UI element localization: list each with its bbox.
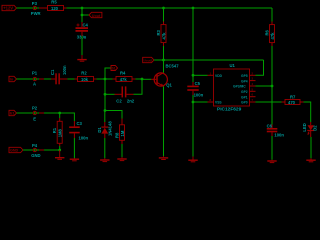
svg-text:10k: 10k	[81, 77, 89, 82]
capacitor C1 100n	[50, 65, 67, 84]
capacitor C3 100n	[69, 121, 88, 141]
svg-text:Uout: Uout	[92, 14, 101, 18]
wire D1 to ground	[104, 138, 106, 158]
svg-text:1N4148: 1N4148	[107, 121, 112, 136]
wire LED to ground	[310, 137, 312, 158]
wire riser down to GP5 pin	[256, 60, 264, 75]
wire label to P4	[23, 149, 33, 151]
capacitor C6 100n	[267, 124, 285, 138]
resistor R1 1M (vertical, P2 row to P4 row)	[52, 113, 63, 150]
svg-text:47k: 47k	[120, 77, 128, 82]
svg-text:C3: C3	[77, 121, 83, 126]
wire down to node Vpp	[81, 8, 83, 15]
connector pin P2	[32, 105, 38, 121]
resistor R4 47k	[113, 71, 136, 82]
wire R7 to LED	[304, 102, 311, 122]
svg-text:R2: R2	[81, 71, 87, 76]
global label S1	[111, 66, 118, 71]
wire C5 to VSS row	[192, 95, 194, 102]
capacitor C2 2n2 (parallel with R4)	[115, 86, 135, 103]
ground under LED	[306, 158, 315, 162]
svg-text:PWR: PWR	[31, 11, 41, 16]
capacitor C4 330u (polarized)	[76, 22, 89, 39]
wire collector of Q1	[163, 60, 165, 73]
junction at 193,75.3	[192, 74, 195, 77]
svg-text:Q1: Q1	[166, 83, 172, 88]
svg-text:Uout2: Uout2	[144, 59, 153, 63]
connector pin P1	[32, 70, 38, 86]
wire label to junction	[154, 59, 164, 61]
wire stub to label	[82, 14, 89, 16]
wire base node to Q1 base	[142, 78, 151, 80]
global label Ukol	[143, 57, 154, 62]
svg-text:D2: D2	[313, 125, 318, 131]
transistor Q1 BC547	[151, 63, 179, 87]
wire P4 to junction	[37, 149, 39, 151]
svg-text:100n: 100n	[79, 135, 89, 140]
svg-text:R5: R5	[51, 0, 57, 5]
junction at 59.7,113	[58, 112, 61, 115]
svg-text:S1: S1	[112, 67, 116, 71]
svg-text:A: A	[33, 81, 36, 86]
svg-text:VDD: VDD	[215, 74, 223, 78]
wire P1 to C1	[37, 78, 39, 80]
global label +12V	[2, 5, 17, 10]
global label Uout	[89, 12, 102, 17]
pin 2 GP5	[241, 71, 256, 78]
svg-text:1M8: 1M8	[58, 128, 63, 137]
wire corner 272,8 down to R6	[271, 8, 273, 22]
svg-text:C1: C1	[50, 69, 55, 75]
pin 7 GP0	[241, 98, 256, 105]
wire to C2	[105, 93, 115, 95]
wire top rail 163.5 to 193	[164, 7, 194, 9]
svg-text:100n: 100n	[194, 93, 204, 98]
wire C3 to ground	[73, 138, 75, 158]
wire to VSS pin	[193, 101, 208, 103]
wire R8 to ground	[121, 144, 123, 157]
wire node A up to label	[105, 68, 111, 79]
svg-text:E: E	[33, 116, 36, 121]
wire emitter of Q1 to ground	[163, 86, 165, 156]
svg-text:47k: 47k	[161, 32, 166, 40]
svg-text:R3: R3	[156, 29, 161, 35]
wire node A down to D1 node	[104, 94, 106, 110]
junction at 163.5,8	[162, 7, 165, 10]
pin 1 VDD	[208, 71, 223, 78]
ground under Q1 emitter	[159, 156, 168, 160]
wire C1 to R2	[67, 78, 74, 80]
svg-text:R6: R6	[264, 29, 269, 35]
svg-text:GP1: GP1	[241, 95, 248, 99]
junction at 59.7,150	[58, 149, 61, 152]
wire GP0 to R7	[256, 101, 282, 103]
svg-text:C4: C4	[83, 22, 89, 27]
junction at 82,15	[81, 14, 84, 17]
svg-text:100n: 100n	[274, 132, 284, 137]
ground under P4 junction	[55, 150, 64, 159]
connector pin P3 (PWR)	[31, 1, 41, 16]
svg-text:BC547: BC547	[166, 63, 180, 68]
junction at 105,94.3	[104, 93, 107, 96]
connector pin P4 (GND)	[31, 143, 40, 158]
diode D1 1N4148	[97, 111, 112, 139]
resistor R8 1M (vertical)	[115, 119, 125, 145]
svg-text:470: 470	[288, 100, 296, 105]
svg-text:+12V: +12V	[3, 6, 13, 11]
wire GP3 to MCLR rail	[256, 85, 273, 87]
wire junction to R3	[163, 8, 165, 22]
pin 5 GP2	[241, 87, 256, 94]
svg-text:GP5: GP5	[241, 74, 248, 78]
junction at 142,79	[141, 78, 144, 81]
pin 6 GP1	[241, 93, 256, 100]
svg-text:LED: LED	[302, 123, 307, 131]
wire P3 to R5	[37, 7, 39, 9]
svg-text:D1: D1	[97, 127, 102, 133]
svg-text:U1: U1	[230, 63, 236, 68]
wire node A to R4	[105, 78, 113, 80]
ground under VSS rail	[188, 157, 197, 162]
svg-text:47k: 47k	[270, 32, 275, 40]
wire junction to C4	[81, 15, 83, 22]
junction at 82,8	[81, 7, 84, 10]
wire VDD rail down	[192, 8, 194, 75]
pin 3 GP4	[241, 77, 256, 84]
svg-text:E1: E1	[10, 112, 15, 116]
svg-text:GP3/MC: GP3/MC	[233, 85, 246, 89]
ground under R8	[117, 157, 126, 161]
junction at 163.5,60	[162, 59, 165, 62]
svg-text:PIC12F629: PIC12F629	[217, 107, 242, 113]
wire P2 to junction	[37, 112, 39, 114]
wire C2 up to base node	[134, 79, 143, 94]
svg-text:P2: P2	[32, 105, 38, 110]
svg-text:P3: P3	[32, 1, 38, 6]
svg-text:GP4: GP4	[241, 79, 248, 83]
ground under D1	[100, 158, 109, 162]
pin 4 GP3	[233, 82, 256, 89]
junction at 272,86	[271, 85, 274, 88]
wire to VDD pin	[193, 74, 208, 76]
svg-text:P1: P1	[32, 70, 38, 75]
svg-text:2n2: 2n2	[127, 99, 135, 104]
wire R3 to collector node	[163, 46, 165, 60]
wire C4 to ground	[81, 36, 83, 55]
pin 8 VSS	[208, 98, 223, 105]
capacitor C5 100n	[187, 75, 203, 97]
junction at 193,8	[192, 7, 195, 10]
wire R6 down to C6	[271, 46, 273, 125]
wire down to ground	[192, 102, 194, 157]
global label In (P1 row)	[9, 76, 17, 81]
svg-text:120: 120	[51, 6, 59, 11]
global label GND (P4 row)	[9, 147, 23, 152]
wire R4 to base node	[136, 78, 143, 80]
wire label to P1	[17, 78, 34, 80]
ground under C3	[70, 158, 79, 161]
svg-text:C2: C2	[116, 99, 122, 104]
ground under C4	[77, 55, 86, 61]
wire top rail 82 to 163.5	[82, 7, 164, 9]
svg-text:VSS: VSS	[215, 101, 222, 105]
svg-text:R8: R8	[115, 132, 120, 138]
svg-text:100n: 100n	[62, 65, 67, 75]
ground under C6	[267, 160, 276, 163]
resistor R5 120	[45, 0, 67, 11]
wire node A down	[104, 79, 106, 94]
global label E (P2 row)	[9, 110, 17, 115]
junction node A 105,79	[104, 78, 107, 81]
resistor R3 (vertical)	[156, 22, 167, 47]
wire label to P2	[17, 112, 34, 114]
svg-text:P4: P4	[32, 143, 38, 148]
wire R5 to C4 branch	[67, 7, 83, 9]
svg-text:C6: C6	[267, 124, 273, 129]
svg-text:GND: GND	[10, 149, 19, 153]
svg-text:R7: R7	[290, 95, 296, 100]
svg-text:C5: C5	[195, 81, 201, 86]
junction at 193,102	[192, 101, 195, 104]
resistor R2 10k	[75, 71, 97, 82]
svg-text:GP0: GP0	[241, 101, 248, 105]
wire junction to C3	[60, 113, 75, 121]
wire D1 node to R8	[105, 111, 122, 119]
resistor R6 47k (vertical)	[264, 22, 275, 47]
svg-text:R4: R4	[120, 71, 126, 76]
LED D2	[302, 122, 317, 137]
svg-text:R1: R1	[52, 127, 57, 133]
svg-text:1M: 1M	[120, 130, 125, 136]
svg-text:GND: GND	[31, 153, 40, 158]
wire C6 to ground	[271, 136, 273, 160]
IC U1 PIC12F629	[214, 63, 250, 112]
resistor R7 470	[282, 95, 304, 105]
junction at 105,110.5	[104, 109, 107, 112]
svg-text:GP2: GP2	[241, 90, 248, 94]
wire R2 to node A	[97, 78, 106, 80]
wire top rail 193 to corner 272	[193, 7, 272, 9]
wire collector node to GP5 riser	[164, 59, 264, 61]
wire +12V label to P3	[17, 7, 34, 9]
